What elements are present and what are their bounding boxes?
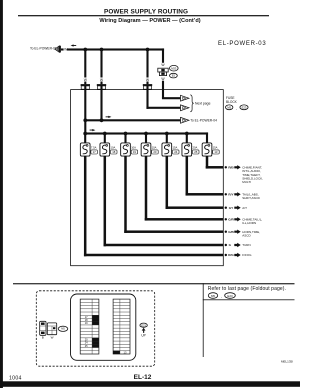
wire bus2 to fuse 1 bbox=[84, 134, 86, 144]
svg-text:R/Y: R/Y bbox=[228, 193, 234, 197]
up arrow bbox=[142, 328, 146, 333]
connector id M33 bbox=[170, 65, 179, 71]
svg-text:,: , bbox=[236, 107, 237, 111]
svg-text:15A: 15A bbox=[173, 146, 178, 150]
label B bbox=[42, 335, 44, 339]
title POWER SUPPLY ROUTING bbox=[104, 8, 188, 15]
flow arrow left on feed bbox=[71, 44, 77, 46]
svg-text:10A: 10A bbox=[152, 146, 157, 150]
svg-text:W: W bbox=[161, 63, 165, 67]
label dest GY bbox=[242, 206, 247, 210]
wire bus2 to fuse 6 bbox=[186, 134, 188, 144]
inline connector M-E bbox=[158, 68, 168, 75]
svg-text:Next page: Next page bbox=[195, 102, 211, 106]
page number EL-12 bbox=[134, 374, 152, 381]
fuse layout grid right bbox=[113, 299, 130, 354]
exit node G/R bbox=[225, 218, 235, 222]
svg-text:G/B: G/B bbox=[228, 230, 234, 234]
svg-text:13: 13 bbox=[214, 150, 218, 154]
svg-text:E23: E23 bbox=[227, 294, 233, 298]
fuse F25 20A bbox=[182, 143, 192, 156]
svg-text:R/G: R/G bbox=[228, 253, 234, 257]
wire bus2 to fuse 3 bbox=[124, 134, 126, 144]
arrow GY bbox=[234, 206, 240, 210]
svg-text:TURN: TURN bbox=[242, 243, 250, 247]
label next page bbox=[195, 102, 211, 106]
fuse block outline bbox=[71, 90, 224, 266]
bus 2 wire bbox=[84, 132, 208, 134]
fuse F24 15A bbox=[162, 143, 172, 156]
svg-text:E23: E23 bbox=[242, 106, 247, 110]
connector id E5 bbox=[170, 73, 178, 78]
svg-text:BLOCK: BLOCK bbox=[226, 100, 238, 104]
note ref E23 bbox=[225, 293, 236, 299]
svg-text:M5: M5 bbox=[211, 294, 215, 298]
svg-text:ILL,HORN: ILL,HORN bbox=[242, 221, 256, 225]
fuse number box 25 bbox=[193, 150, 200, 154]
staircase wire from fuse 24 bbox=[166, 156, 224, 209]
fuse F19 10A bbox=[121, 143, 131, 156]
fuse number box 24 bbox=[173, 150, 180, 154]
svg-text:SHIFT,ASCD: SHIFT,ASCD bbox=[242, 196, 260, 200]
staircase wire from fuse 18 bbox=[104, 156, 224, 246]
label dest G/R bbox=[242, 217, 262, 225]
header rule bbox=[18, 15, 269, 16]
staircase wire from fuse 19 bbox=[124, 156, 223, 233]
svg-text:E23: E23 bbox=[141, 324, 146, 327]
arrow R/G bbox=[234, 253, 240, 257]
junction dot bus2 f3 bbox=[124, 132, 128, 136]
note refer to last page bbox=[208, 286, 286, 292]
doc code MEL135I bbox=[281, 360, 293, 364]
fuse rating 15A f5 bbox=[173, 146, 178, 150]
exit node G/B bbox=[225, 230, 235, 234]
svg-text:M33: M33 bbox=[171, 66, 177, 70]
wire drop 4 into box bbox=[162, 81, 164, 99]
svg-text:Refer to last page (Foldout pa: Refer to last page (Foldout page). bbox=[208, 286, 286, 292]
staircase wire from fuse 17 bbox=[84, 156, 223, 256]
fuse rating 10A f4 bbox=[152, 146, 157, 150]
svg-text:W: W bbox=[161, 77, 165, 81]
svg-text:M5: M5 bbox=[227, 106, 231, 110]
svg-text:Wiring Diagram — POWER — (Cont: Wiring Diagram — POWER — (Cont’d) bbox=[99, 18, 200, 24]
comma between refs bbox=[236, 107, 237, 111]
note bottom rule bbox=[203, 298, 295, 301]
exit node G bbox=[225, 243, 232, 247]
label dest R/B bbox=[242, 165, 263, 184]
junction dot bus2 f1 bbox=[83, 132, 87, 136]
wire color W above inline connector bbox=[161, 63, 165, 67]
wire to next page arrow 1 bbox=[162, 97, 181, 99]
junction dot bus2 f4 bbox=[144, 132, 148, 136]
fuse number box 18 bbox=[111, 150, 118, 154]
svg-text:25: 25 bbox=[194, 150, 198, 154]
label dest R/Y bbox=[242, 192, 260, 200]
label UP bbox=[141, 334, 145, 338]
page code EL-POWER-03 bbox=[218, 41, 266, 47]
fuse rating 20A f6 bbox=[193, 146, 198, 150]
print code 1004 bbox=[9, 375, 22, 381]
connector to EL-POWER-01 bbox=[55, 46, 61, 53]
svg-text:M5: M5 bbox=[61, 328, 65, 331]
fuse rating 10A f3 bbox=[131, 146, 136, 150]
junction dot bus2 f6 bbox=[185, 132, 189, 136]
junction dot bus2 f2 bbox=[103, 132, 107, 136]
label dest G/B bbox=[242, 230, 260, 238]
svg-text:E5: E5 bbox=[172, 74, 176, 78]
svg-text:7.5A: 7.5A bbox=[91, 146, 97, 150]
fuse F17 7.5A bbox=[80, 143, 90, 156]
arrow G/R bbox=[234, 217, 240, 221]
wire feed segment bbox=[61, 48, 64, 50]
note ref separator bbox=[221, 295, 222, 299]
staircase wire from fuse 25 bbox=[186, 156, 224, 195]
svg-text:ASCD: ASCD bbox=[242, 234, 251, 238]
wire drop 3 inside box bbox=[146, 90, 148, 109]
arrow R/B bbox=[234, 165, 240, 169]
junction dot bus1 right bbox=[100, 118, 104, 122]
svg-text:GY: GY bbox=[229, 206, 234, 210]
junction dot bus2 f5 bbox=[165, 132, 169, 136]
svg-text:20A: 20A bbox=[193, 146, 198, 150]
fuse F20 10A bbox=[141, 143, 151, 156]
svg-text:1004: 1004 bbox=[9, 375, 22, 381]
svg-text:18: 18 bbox=[112, 150, 116, 154]
label dest G bbox=[242, 243, 250, 247]
exit node R/Y bbox=[225, 193, 235, 197]
svg-text:MULTI: MULTI bbox=[242, 180, 251, 184]
exit node R/B bbox=[225, 166, 235, 170]
face ref E23 bbox=[140, 323, 147, 327]
svg-text:G/R: G/R bbox=[228, 218, 234, 222]
hollow arrow next page 2 bbox=[181, 105, 189, 111]
bracket next page bbox=[190, 95, 194, 112]
fuse block face outline bbox=[71, 294, 136, 360]
svg-text:20: 20 bbox=[153, 150, 157, 154]
connector 2 at fuse block edge bbox=[97, 84, 106, 89]
label To EL-POWER-04 bbox=[190, 119, 217, 123]
wire color W drop 1 bbox=[83, 78, 88, 83]
connector view oval id bbox=[58, 326, 68, 331]
svg-text:B: B bbox=[42, 335, 44, 339]
junction dot C bbox=[146, 48, 150, 52]
svg-text:EL-12: EL-12 bbox=[134, 374, 152, 381]
note ref M5 bbox=[208, 293, 217, 299]
staircase wire from fuse 13 bbox=[206, 156, 224, 168]
exit node R/G bbox=[225, 253, 235, 257]
fuse number box 13 bbox=[213, 150, 220, 154]
svg-text:W: W bbox=[51, 335, 54, 339]
label To EL-POWER-01 bbox=[30, 46, 57, 50]
arrow G/B bbox=[234, 230, 240, 234]
bus2 corner drop f7 bbox=[206, 132, 208, 143]
arrow R/Y bbox=[234, 192, 240, 196]
svg-text:To EL-POWER-01: To EL-POWER-01 bbox=[30, 46, 57, 50]
junction dot bus1 left bbox=[83, 118, 87, 122]
svg-text:MEL135I: MEL135I bbox=[281, 360, 293, 364]
wire v2 inside box bbox=[100, 90, 102, 122]
svg-text:19: 19 bbox=[133, 150, 137, 154]
wire drop 1 bbox=[84, 50, 86, 85]
section divider bbox=[202, 283, 205, 357]
fuse block ref M5 bbox=[226, 105, 233, 110]
hollow arrow next page 1 bbox=[181, 95, 189, 101]
fuse rating 7.5A f1 bbox=[91, 146, 97, 150]
wire color W below inline connector bbox=[161, 77, 165, 81]
arrow G bbox=[234, 243, 240, 247]
connector view B bbox=[40, 321, 46, 335]
staircase wire from fuse 20 bbox=[145, 156, 224, 220]
flow arrow on bus 1 bbox=[106, 116, 112, 118]
label W bbox=[51, 335, 54, 339]
fuse rating 10A f2 bbox=[111, 146, 116, 150]
svg-text:R/B: R/B bbox=[228, 166, 234, 170]
fuse F18 10A bbox=[100, 143, 110, 156]
wire v1 inside box bbox=[84, 90, 86, 135]
main feed bus wire bbox=[67, 48, 164, 50]
subtitle Wiring Diagram POWER Contd bbox=[99, 18, 200, 24]
fuse number box 20 bbox=[152, 150, 159, 154]
svg-text:10A: 10A bbox=[111, 146, 116, 150]
junction dot B bbox=[100, 48, 104, 52]
svg-text:POWER SUPPLY ROUTING: POWER SUPPLY ROUTING bbox=[104, 8, 188, 15]
connector 3 at fuse block edge bbox=[143, 84, 152, 89]
label dest R/G bbox=[242, 253, 252, 257]
bus 1 wire bbox=[84, 119, 180, 121]
svg-text:15A: 15A bbox=[213, 146, 218, 150]
svg-text:10A: 10A bbox=[131, 146, 136, 150]
svg-text:,: , bbox=[221, 295, 222, 299]
page bottom bar bbox=[0, 381, 300, 387]
fuse F13 15A bbox=[202, 143, 212, 156]
fuse number box 19 bbox=[131, 150, 138, 154]
wire bus2 to fuse 2 bbox=[104, 134, 106, 144]
svg-text:17: 17 bbox=[93, 150, 97, 154]
wire bus2 to fuse 5 bbox=[166, 134, 168, 144]
wire color W drop 3 bbox=[145, 78, 150, 83]
svg-text:To EL-POWER-04: To EL-POWER-04 bbox=[190, 119, 217, 123]
wire bus2 to fuse 4 bbox=[145, 134, 147, 144]
wire drop 3 bbox=[146, 50, 148, 85]
flow arrow on bus 2 bbox=[90, 129, 96, 131]
section rule bbox=[13, 283, 295, 284]
connector view W bbox=[47, 323, 56, 335]
hollow arrow to EL-POWER-04 bbox=[181, 117, 189, 123]
exit node GY bbox=[225, 206, 235, 210]
svg-text:A/T: A/T bbox=[242, 206, 247, 210]
label FUSE BLOCK bbox=[226, 96, 238, 104]
foldout dashed box bbox=[36, 291, 154, 366]
junction dot A bbox=[83, 48, 87, 52]
wire bus corner to drop 4 bbox=[162, 48, 164, 62]
svg-text:24: 24 bbox=[174, 150, 178, 154]
fuse number box 17 bbox=[91, 150, 98, 154]
wire color W feed bbox=[64, 48, 68, 52]
wire to next page arrow 2 bbox=[146, 107, 180, 109]
fuse layout grid left bbox=[80, 299, 99, 354]
fuse rating 15A f7 bbox=[213, 146, 218, 150]
svg-text:F/FOG: F/FOG bbox=[242, 253, 252, 257]
svg-text:EL-POWER-03: EL-POWER-03 bbox=[218, 41, 266, 47]
svg-text:G: G bbox=[229, 243, 232, 247]
page left border bbox=[0, 0, 3, 388]
fuse block ref E23 bbox=[240, 105, 248, 110]
connector 1 at fuse block edge bbox=[81, 84, 90, 89]
wire drop 2 bbox=[100, 50, 102, 85]
svg-text:UP: UP bbox=[141, 334, 145, 338]
wire color W drop 2 bbox=[99, 78, 104, 83]
